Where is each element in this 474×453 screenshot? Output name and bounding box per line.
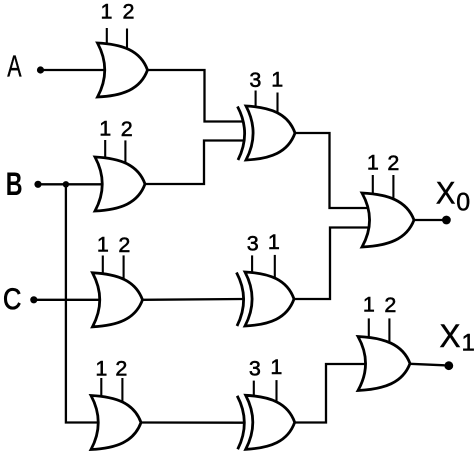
pin stub 1 of U5 (276, 93, 278, 123)
svg-text:1: 1 (101, 0, 113, 24)
or-gate G4 (91, 396, 141, 450)
svg-text:3: 3 (247, 232, 259, 256)
pin stub 1 of G2 (104, 140, 106, 167)
svg-text:C: C (3, 283, 21, 316)
pin stub 1 of G4 (100, 378, 102, 406)
svg-text:0: 0 (456, 189, 470, 217)
wire B to OR gate G2 input (38, 183, 102, 185)
wire G3 output to XOR U6 input (143, 298, 244, 301)
svg-text:B: B (6, 166, 23, 202)
svg-text:1: 1 (367, 151, 379, 175)
svg-text:X: X (440, 318, 461, 354)
xor-gate U6 input-side arc (237, 273, 244, 327)
svg-text:2: 2 (115, 356, 127, 380)
svg-text:2: 2 (387, 151, 399, 175)
or-gate G2 (95, 157, 145, 211)
svg-text:1: 1 (95, 356, 107, 380)
pin stub 2 of G2 (124, 140, 126, 173)
node A input terminal dot (37, 66, 44, 73)
or-gate driving output X0 (362, 193, 414, 247)
wire B branch down to OR gate G4 input (66, 184, 98, 422)
svg-text:2: 2 (121, 117, 133, 141)
pin stub 2 of G3 (123, 255, 125, 288)
xor-gate U5 input-side arc (238, 107, 245, 161)
svg-text:3: 3 (249, 68, 261, 92)
svg-text:A: A (7, 50, 22, 84)
pin stub 1 of U6 (274, 255, 276, 288)
wire X0-gate output to terminal (414, 219, 443, 221)
wire XOR U5 output to OR X0-gate upper input (295, 133, 368, 208)
xor-gate U7 input-side arc (237, 396, 244, 450)
pin stub 2 of G1 (126, 29, 128, 60)
wire G4 output to XOR U7 input (141, 421, 244, 424)
svg-text:1: 1 (462, 330, 474, 357)
pin stub 2 of X1 gate (388, 318, 390, 352)
wire A to OR gate G1 input (41, 69, 106, 71)
pin stub 2 of X0 gate (392, 175, 394, 209)
or-gate G1 (98, 43, 148, 97)
svg-text:3: 3 (249, 356, 261, 380)
pin stub 1 of G1 (106, 28, 108, 53)
wire G1 output to XOR U5 upper input (148, 70, 245, 122)
pin stub 3 of U5 (255, 91, 257, 117)
or-gate driving output X1 (358, 337, 410, 391)
junction dot on B wire (63, 181, 69, 187)
wire XOR U6 output to OR X0-gate lower input (294, 228, 368, 300)
svg-text:2: 2 (384, 293, 396, 317)
svg-text:1: 1 (270, 355, 282, 379)
node B input terminal dot (34, 181, 41, 188)
svg-text:2: 2 (118, 233, 130, 257)
pin stub 2 of G4 (121, 378, 123, 412)
node C input terminal dot (30, 296, 37, 303)
wire C to OR gate G3 input (34, 299, 100, 301)
wire XOR U7 output to OR X1-gate input (295, 364, 367, 423)
xor-gate U7 body (246, 395, 295, 449)
wire G2 output to XOR U5 lower input (145, 141, 244, 185)
svg-text:1: 1 (268, 230, 280, 254)
svg-text:1: 1 (97, 233, 109, 257)
pin stub 1 of G3 (102, 256, 104, 283)
pin stub 1 of U7 (275, 380, 277, 411)
or-gate G3 (93, 273, 143, 327)
svg-text:1: 1 (363, 293, 375, 317)
svg-text:2: 2 (123, 0, 135, 23)
node X1 output terminal dot (444, 361, 453, 370)
pin stub 1 of X1 gate (368, 318, 370, 346)
pin stub 3 of U7 (253, 381, 255, 406)
wire X1-gate output to terminal (410, 364, 445, 366)
svg-text:1: 1 (271, 67, 283, 91)
xor-gate U6 body (245, 272, 294, 326)
svg-text:X: X (436, 175, 456, 211)
xor-gate U5 body (246, 106, 295, 160)
svg-text:1: 1 (99, 116, 111, 140)
node X0 output terminal dot (442, 216, 451, 225)
pin stub 1 of X0 gate (372, 175, 374, 203)
pin stub 3 of U6 (251, 255, 253, 282)
